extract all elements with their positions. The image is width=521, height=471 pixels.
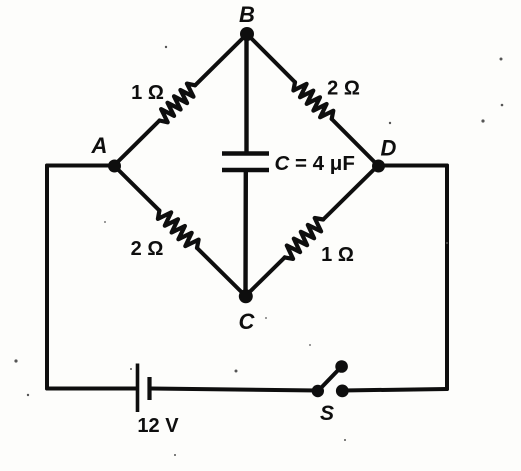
svg-text:1 Ω: 1 Ω (321, 244, 354, 266)
svg-text:C: C (239, 309, 256, 334)
switch S right contact (336, 385, 349, 398)
node C (239, 289, 253, 303)
wire switch to right rail (343, 389, 448, 391)
wire A to B (lower segment) (114, 121, 160, 166)
resistor R3 2 ohm (A-C arm) (158, 211, 199, 248)
wire capacitor bottom plate to C (243, 171, 248, 296)
wire A to R3 (114, 166, 159, 211)
wire right rail up (445, 166, 449, 390)
wire R4 to D (323, 166, 378, 220)
wire bottom left to battery (47, 387, 136, 391)
capacitor C plates (222, 154, 269, 171)
wire R3 to C (197, 248, 246, 296)
svg-text:D: D (381, 136, 397, 161)
wire battery to switch (151, 389, 318, 391)
svg-text:2 Ω: 2 Ω (327, 78, 360, 100)
resistor R1 1 ohm (A-B arm) (160, 84, 196, 123)
wire A to left rail (47, 164, 114, 168)
switch S left contact (312, 385, 324, 397)
resistor R4 1 ohm (C-D arm) (285, 218, 324, 259)
wire R1 to B (195, 34, 247, 85)
svg-text:S: S (320, 402, 334, 425)
svg-text:1 Ω: 1 Ω (131, 82, 164, 104)
wire B to capacitor top plate (244, 34, 248, 153)
switch S lever tip contact (335, 360, 348, 373)
svg-text:12 V: 12 V (137, 415, 179, 437)
svg-text:A: A (91, 133, 108, 158)
node B (240, 27, 254, 41)
wire left rail down (45, 166, 49, 389)
resistor R2 2 ohm (B-D arm) (293, 82, 333, 119)
svg-text:C = 4 μF: C = 4 μF (275, 152, 355, 175)
node D (372, 160, 385, 173)
wire C to R4 (246, 257, 285, 296)
node A (108, 160, 121, 173)
switch S lever arm (318, 367, 342, 392)
svg-text:2 Ω: 2 Ω (131, 238, 164, 260)
wire B to R2 (247, 34, 295, 82)
battery cell 12V (138, 364, 150, 413)
wire D to right rail (378, 164, 447, 168)
wire R2 to D (332, 119, 378, 166)
svg-text:B: B (239, 2, 255, 27)
